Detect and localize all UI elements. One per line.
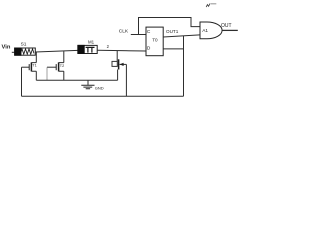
svg-text:M1: M1 (88, 40, 95, 45)
wire M1 to flip-flop D input (node 2) (97, 49, 146, 52)
annotation squiggle (206, 4, 210, 7)
wire S1 to M1 (35, 50, 78, 52)
svg-text:T2: T2 (60, 64, 64, 68)
wire T1 gate feedback down left side (21, 67, 23, 96)
wire T3 source to ground rail (117, 70, 119, 81)
wire T2 source down to ground rail (63, 71, 65, 80)
wire T2 drain up to main wire (63, 51, 65, 62)
wire T1 source down to ground rail (35, 71, 37, 80)
svg-text:OUT: OUT (221, 23, 232, 29)
wire AND gate output (222, 29, 238, 31)
wire bottom feedback rail (22, 95, 184, 97)
wire CLK to C input (131, 34, 146, 36)
wire T1 drain up to main wire (35, 52, 37, 63)
svg-text:T0: T0 (152, 38, 158, 43)
svg-text:Vin: Vin (2, 44, 11, 50)
and-gate A1 (200, 22, 222, 39)
switch M1 (78, 40, 97, 54)
wire Vin to S1 (12, 51, 15, 53)
svg-text:A1: A1 (202, 28, 208, 34)
transistor T2 (47, 62, 64, 71)
wire T3 bulk lead down to bottom feedback rail (125, 64, 127, 96)
wire CLK branch up and over to AND gate top input (139, 18, 201, 35)
wire flip-flop lower output to feedback node (163, 48, 183, 50)
svg-text:C: C (147, 29, 151, 35)
svg-text:D: D (147, 46, 151, 52)
svg-text:CLK: CLK (119, 28, 129, 34)
svg-text:GND: GND (95, 86, 104, 91)
annotation dash (211, 3, 217, 5)
transistor T1 (22, 62, 37, 71)
svg-text:2: 2 (107, 44, 110, 49)
svg-text:OUT1: OUT1 (166, 29, 179, 34)
transistor T3 (112, 59, 126, 69)
svg-text:T1: T1 (32, 63, 36, 67)
wire node2 down to T3 gate (116, 51, 118, 62)
wire feedback rail up to OUT1 node (183, 36, 185, 96)
wire flip-flop Q output to AND gate bottom input (163, 35, 200, 37)
svg-text:S1: S1 (21, 42, 27, 48)
wire T2 gate down (46, 67, 48, 80)
ground rail wire (36, 79, 117, 81)
switch S1 (15, 42, 36, 56)
flip-flop T0 (146, 27, 163, 56)
ground (81, 80, 104, 90)
